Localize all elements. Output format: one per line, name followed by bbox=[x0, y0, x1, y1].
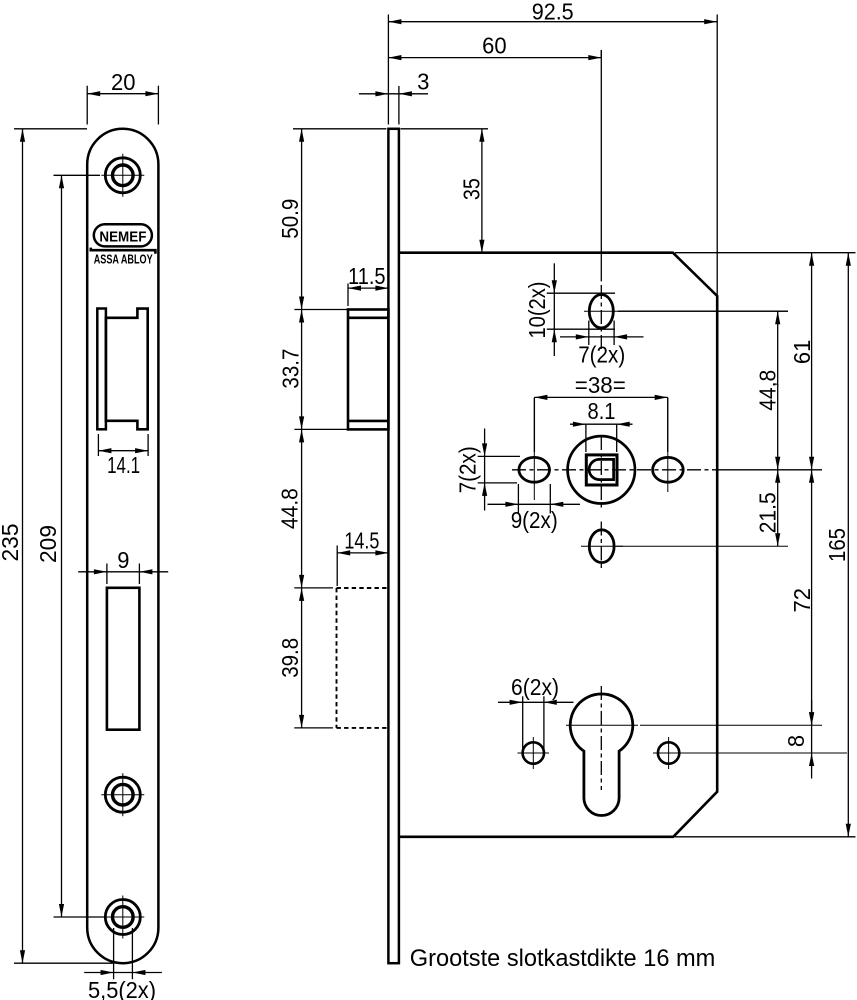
svg-text:6(2x): 6(2x) bbox=[511, 674, 559, 700]
svg-text:14.1: 14.1 bbox=[107, 452, 140, 478]
svg-text:61: 61 bbox=[789, 340, 815, 365]
dimension 10(2x) oval height bbox=[547, 292, 615, 294]
horizontal centerline through follower bbox=[512, 469, 717, 471]
dimension 6(2x) fixing holes bbox=[522, 696, 524, 752]
dimension 35 (case top offset) bbox=[401, 128, 489, 130]
svg-text:9(2x): 9(2x) bbox=[511, 507, 558, 533]
right side oval hole bbox=[653, 457, 684, 482]
svg-text:33.7: 33.7 bbox=[278, 349, 304, 389]
dimension 39.8 bbox=[301, 588, 303, 728]
svg-text:=38=: =38= bbox=[575, 372, 626, 398]
svg-text:Grootste slotkastdikte 16 mm: Grootste slotkastdikte 16 mm bbox=[410, 945, 716, 972]
right extension lines bbox=[675, 252, 856, 254]
svg-text:11.5: 11.5 bbox=[348, 263, 386, 289]
dimension 11.5 (latch protrusion) bbox=[347, 284, 349, 307]
hidden deadbolt dashed outline bbox=[336, 588, 338, 728]
euro profile cylinder hole bbox=[570, 694, 633, 816]
svg-text:39.8: 39.8 bbox=[277, 638, 303, 678]
svg-text:209: 209 bbox=[35, 525, 61, 563]
follower D insert bbox=[589, 459, 614, 479]
dimension 20 (plate width) bbox=[86, 86, 88, 125]
dimension 92.5 (backset total) bbox=[387, 15, 389, 125]
latch cutout opening bbox=[106, 309, 148, 430]
dimension 60 (backset) bbox=[600, 50, 602, 58]
lock case outline bbox=[399, 253, 717, 837]
svg-text:10(2x): 10(2x) bbox=[524, 282, 550, 339]
logo underline bbox=[91, 248, 156, 254]
cylinder fixing hole right bbox=[658, 742, 679, 763]
dimension 8.1 follower square bbox=[585, 424, 587, 452]
NEMEF logo bbox=[94, 224, 152, 246]
left extension lines bbox=[293, 128, 386, 130]
follower square hole bbox=[586, 455, 617, 485]
left side oval hole bbox=[519, 457, 550, 482]
bottom oval hole bbox=[589, 530, 614, 563]
svg-text:8.1: 8.1 bbox=[588, 398, 616, 424]
dimension 3 (faceplate thickness) bbox=[398, 86, 400, 125]
dimension 235 (plate height) bbox=[14, 128, 87, 130]
svg-text:9: 9 bbox=[117, 547, 129, 573]
screw hole lower-middle bbox=[105, 777, 140, 812]
svg-text:50.9: 50.9 bbox=[277, 199, 303, 239]
dimension 5,5(2x) (screw hole diameter) bbox=[113, 928, 115, 979]
dimension 165 (case height) bbox=[847, 253, 849, 837]
svg-text:72: 72 bbox=[789, 588, 815, 613]
svg-text:60: 60 bbox=[482, 33, 507, 59]
dimension 72 bbox=[811, 470, 813, 725]
screw hole top bbox=[105, 158, 140, 193]
follower circle bbox=[568, 436, 635, 503]
dimension 7(2x) side oval height bbox=[478, 455, 520, 457]
svg-text:35: 35 bbox=[459, 178, 485, 200]
vertical centerline bbox=[600, 50, 602, 281]
dimension 21.5 bbox=[777, 470, 779, 546]
svg-text:44,8: 44,8 bbox=[755, 370, 781, 411]
dimension 50.9 bbox=[301, 129, 303, 310]
latch cutout left bar bbox=[97, 309, 106, 430]
latch bolt side view bbox=[348, 310, 388, 430]
screw hole bottom bbox=[105, 900, 140, 935]
svg-text:5,5(2x): 5,5(2x) bbox=[88, 977, 156, 1000]
lower rectangular cutout bbox=[107, 588, 139, 730]
svg-text:8: 8 bbox=[783, 735, 809, 747]
svg-text:21.5: 21.5 bbox=[755, 492, 781, 533]
svg-text:235: 235 bbox=[0, 524, 23, 562]
dimension 33.7 bbox=[301, 310, 303, 430]
dimension 44.8 left bbox=[301, 429, 303, 588]
dimension 7(2x) oval width top bbox=[588, 321, 590, 346]
svg-text:NEMEF: NEMEF bbox=[99, 229, 146, 246]
svg-text:7(2x): 7(2x) bbox=[454, 446, 480, 493]
dimension 44,8 right bbox=[777, 311, 779, 470]
svg-text:20: 20 bbox=[111, 69, 136, 95]
dimension 14.1 (latch cutout width) bbox=[97, 434, 99, 456]
cylinder fixing hole left bbox=[523, 742, 544, 763]
svg-text:3: 3 bbox=[417, 68, 429, 94]
dimension 9 (lower cutout width) bbox=[106, 564, 108, 585]
dimension 9(2x) side oval width bbox=[517, 484, 519, 514]
faceplate side view bbox=[388, 129, 399, 963]
svg-text:7(2x): 7(2x) bbox=[578, 341, 625, 367]
faceplate front view outline bbox=[87, 129, 158, 963]
svg-text:44.8: 44.8 bbox=[277, 488, 303, 529]
dimension 8 (cylinder to fixing hole) bbox=[811, 700, 813, 779]
dimension 61 bbox=[811, 253, 813, 470]
top oval hole bbox=[589, 295, 613, 328]
svg-text:165: 165 bbox=[824, 528, 850, 562]
svg-text:14.5: 14.5 bbox=[344, 527, 379, 553]
dimension 209 (screw hole spacing) bbox=[54, 174, 101, 176]
dimension 14.5 (deadbolt) bbox=[336, 546, 338, 587]
svg-text:92.5: 92.5 bbox=[532, 0, 574, 24]
dimension =38= follower to side holes bbox=[533, 397, 535, 452]
svg-text:ASSA ABLOY: ASSA ABLOY bbox=[94, 252, 153, 266]
